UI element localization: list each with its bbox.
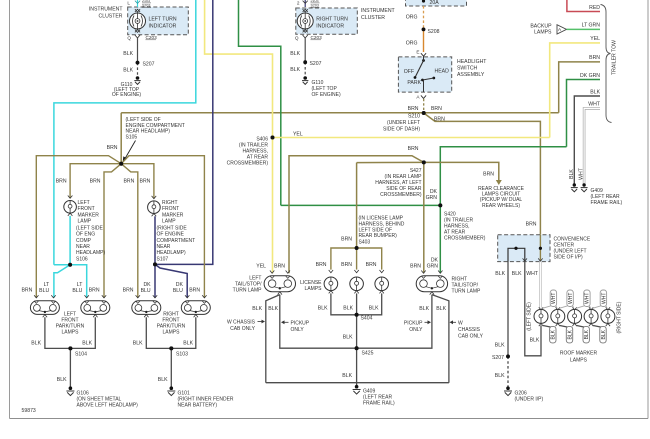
svg-text:ONLY: ONLY — [409, 327, 423, 333]
svg-text:(UNDER LEFT: (UNDER LEFT — [387, 120, 420, 126]
svg-text:BLK: BLK — [590, 89, 600, 95]
svg-text:ORG: ORG — [406, 15, 418, 21]
ground G206 (under I/P) — [504, 386, 543, 402]
svg-text:BLK: BLK — [342, 373, 352, 379]
splice S404 — [355, 313, 359, 317]
wire BLK stub lamp2 with label box — [543, 326, 557, 343]
svg-text:BRN: BRN — [410, 263, 421, 269]
label W CHASSIS CAB ONLY (right) — [450, 320, 484, 339]
wire BRN drop to S403 — [356, 163, 358, 248]
svg-text:RIGHT: RIGHT — [162, 200, 178, 206]
label left front park/turn lamps — [56, 312, 85, 336]
wire BRN S403 bus to license lamps — [331, 248, 357, 270]
svg-text:S105: S105 — [126, 134, 138, 140]
svg-text:WHT: WHT — [579, 167, 585, 180]
svg-text:LAMPS: LAMPS — [62, 330, 80, 336]
svg-text:BLK: BLK — [158, 377, 168, 383]
svg-text:BLK: BLK — [343, 306, 353, 312]
label right front park/turn lamps — [157, 312, 186, 336]
wire DK BLU S107 to third park lamp pin — [154, 264, 156, 297]
svg-text:TRAILER TOW: TRAILER TOW — [612, 40, 618, 75]
wire YEL from top to rear yellow drop — [205, 0, 273, 138]
svg-text:20A: 20A — [430, 0, 440, 6]
svg-text:CROSSMEMBER): CROSSMEMBER) — [227, 161, 269, 167]
wire BRN dashed from terminal A to S210 — [423, 99, 425, 113]
svg-text:BLK: BLK — [318, 306, 328, 312]
svg-text:BLK: BLK — [123, 68, 133, 74]
wire BLK left tail lamp pickup branch to S425 bus — [280, 295, 357, 349]
wire BRN main bus from S210 left to S105 drop — [121, 112, 424, 114]
wire DK GRN from trailer cross run down to S420 — [440, 147, 566, 206]
svg-text:OF ENGINE): OF ENGINE) — [312, 92, 342, 98]
svg-text:LAMP: LAMP — [162, 219, 176, 225]
svg-text:BLK: BLK — [495, 343, 505, 349]
trailer tow bracket — [601, 5, 612, 123]
svg-text:BLK: BLK — [252, 306, 262, 312]
license lamp 1 — [324, 270, 338, 293]
instrument cluster box (right turn indicator) — [296, 8, 396, 34]
svg-text:S207: S207 — [310, 61, 322, 67]
wire BLK stub lamp3 with label box — [577, 326, 590, 343]
splice S207 (left engine harness) — [136, 61, 140, 65]
svg-text:BLK: BLK — [369, 306, 379, 312]
pin connector top of left indicator (terminal L) — [127, 0, 151, 12]
svg-text:CAB ONLY: CAB ONLY — [458, 334, 484, 340]
svg-text:Q: Q — [295, 36, 299, 41]
svg-text:BLK: BLK — [343, 335, 353, 341]
svg-text:LAMPS: LAMPS — [305, 286, 323, 292]
junction dot overlay (all splice nodes repainted on top) — [68, 28, 542, 359]
wire DK BLU from top to S107 riser — [155, 0, 213, 264]
wire BRN fan S105 to right park lamp inner pin — [121, 164, 138, 298]
svg-text:NEAR: NEAR — [157, 244, 171, 250]
svg-text:REAR WHEELS): REAR WHEELS) — [482, 203, 520, 209]
left tail/stop/turn lamp — [233, 271, 296, 295]
svg-text:GRN: GRN — [426, 195, 438, 201]
svg-text:BLK: BLK — [290, 51, 300, 57]
svg-text:CLUSTER: CLUSTER — [99, 14, 123, 20]
svg-text:ORG: ORG — [406, 41, 418, 47]
page border frame bottom — [10, 418, 649, 420]
svg-text:GRN: GRN — [427, 264, 439, 270]
svg-text:S203: S203 — [311, 4, 319, 8]
ground G110 (right chain) — [302, 76, 341, 98]
svg-text:BRN: BRN — [316, 262, 327, 268]
svg-text:BLK: BLK — [183, 341, 193, 347]
splice S208 — [422, 28, 426, 32]
wire BRN through convenience center — [539, 235, 541, 261]
svg-text:BLK: BLK — [512, 271, 522, 277]
svg-text:BRN: BRN — [431, 106, 442, 112]
page border frame right — [647, 0, 649, 419]
wire BRN fan S105 to left front marker lamp — [70, 164, 121, 198]
wire BLK from C203 to S207 (right) — [304, 38, 306, 62]
svg-text:ROOF MARKER: ROOF MARKER — [560, 351, 598, 357]
roof marker lamp 1 — [534, 307, 548, 326]
wire BLK S404 to S425 — [356, 315, 358, 348]
wire BLK dashed S207 to G206 — [507, 356, 509, 387]
svg-text:COMPARTMENT: COMPARTMENT — [157, 238, 196, 244]
wire BLK right tail lamp pickup branch to S425 bus — [357, 295, 432, 349]
svg-text:BRN: BRN — [408, 106, 419, 112]
svg-text:BRN: BRN — [123, 288, 134, 294]
splice S210 (under left side of dash) — [422, 111, 426, 115]
svg-text:BRN: BRN — [21, 288, 32, 294]
svg-text:LEFT: LEFT — [78, 200, 90, 206]
wire DK GRN from trailer tow down to green cross run — [567, 80, 601, 147]
roof marker lamp 2 — [551, 307, 565, 326]
svg-text:OF ENG: OF ENG — [76, 232, 95, 238]
svg-text:MARKER: MARKER — [162, 212, 184, 218]
svg-text:WHT: WHT — [551, 293, 557, 304]
svg-text:BLK: BLK — [133, 341, 143, 347]
wire BLK from C203 to S207 (left) — [137, 38, 139, 63]
svg-text:LAMP: LAMP — [78, 219, 92, 225]
wire BRN riser to trailer tow BRN row — [559, 62, 600, 113]
svg-text:WHT: WHT — [526, 271, 539, 277]
right tail/stop/turn lamp — [416, 271, 481, 295]
svg-text:BLK: BLK — [57, 377, 67, 383]
svg-text:(RIGHT SIDE: (RIGHT SIDE — [157, 225, 188, 231]
svg-text:SWITCH: SWITCH — [457, 66, 478, 72]
pin connector convenience center output 3 — [538, 258, 542, 261]
svg-text:W CHASSIS: W CHASSIS — [227, 320, 256, 326]
wire WHT jumper lamp2 to lamp3 with label box — [559, 290, 574, 308]
svg-text:ABOVE LEFT HEADLAMP): ABOVE LEFT HEADLAMP) — [77, 403, 139, 409]
wire BRN drop from main bus to S105 — [120, 113, 122, 164]
svg-text:S210: S210 — [408, 114, 420, 120]
splice S105 — [119, 162, 123, 166]
left front park/turn lamp 1 — [30, 295, 59, 317]
splice S207 (rear) — [506, 355, 510, 359]
svg-text:BRN: BRN — [483, 172, 494, 178]
svg-text:INDICATOR: INDICATOR — [316, 24, 344, 30]
svg-text:C203: C203 — [311, 35, 323, 40]
svg-text:2: 2 — [297, 1, 300, 6]
svg-text:BLK: BLK — [419, 306, 429, 312]
pin connector top of right indicator (terminal 2) — [297, 0, 320, 12]
headlight switch assembly box — [398, 57, 487, 92]
svg-text:FRONT: FRONT — [162, 206, 179, 212]
label PICKUP ONLY (left) — [281, 320, 310, 333]
svg-text:S425: S425 — [362, 351, 374, 357]
svg-text:YEL: YEL — [256, 263, 266, 269]
wire BLK S425 down to G409 — [356, 348, 358, 385]
splice S107 — [153, 263, 157, 267]
svg-text:BLU: BLU — [72, 288, 82, 294]
svg-text:CAB ONLY: CAB ONLY — [230, 326, 256, 332]
svg-text:BLK: BLK — [436, 306, 446, 312]
svg-text:(LEFT SIDE: (LEFT SIDE — [76, 225, 104, 231]
svg-text:S107: S107 — [157, 256, 169, 262]
splice S106 — [68, 263, 72, 267]
wire WHT jumper lamp3 to lamp4 with label box — [576, 290, 591, 308]
wire WHT convenience center to first roof marker lamp — [539, 262, 541, 308]
svg-text:BLK: BLK — [530, 338, 540, 344]
wire WHT jumper lamp1 to lamp2 with label box — [543, 290, 558, 308]
left front park/turn lamp 2 — [81, 295, 110, 317]
license lamp 2 — [350, 270, 364, 293]
pin connector bottom of right indicator (terminal Q, connector C203) — [295, 30, 322, 41]
svg-text:CROSSMEMBER): CROSSMEMBER) — [380, 192, 422, 198]
svg-text:OF ENGINE): OF ENGINE) — [112, 92, 142, 98]
svg-text:BLU: BLU — [173, 288, 183, 294]
splice S207 (right chain) — [303, 60, 307, 64]
labels wire colors above park turn lamps — [21, 282, 200, 294]
svg-text:BLK: BLK — [31, 341, 41, 347]
svg-text:WHT: WHT — [568, 293, 574, 304]
svg-text:BRN: BRN — [90, 179, 101, 185]
svg-text:BRN: BRN — [526, 222, 537, 228]
page border frame left — [9, 0, 11, 419]
svg-text:BRN: BRN — [89, 288, 100, 294]
label PICKUP ONLY (right) — [404, 320, 431, 333]
wire WHT from trailer tow down to G409 — [584, 108, 600, 183]
wire BLK dashed from S207 to G110 (right) — [304, 62, 306, 76]
svg-text:E: E — [416, 50, 419, 55]
wire LT GRN from backup lamps arrow to trailer tow — [567, 28, 601, 30]
ground G409 (left rear frame rail, trailer tow pair) — [571, 183, 623, 206]
fuse block box (20A fuse, top edge) — [406, 0, 467, 6]
wire BRN from S427 left to license lamp drop — [357, 161, 424, 163]
svg-text:S203: S203 — [142, 4, 150, 8]
svg-text:BLK: BLK — [495, 373, 505, 379]
arrow to rear clearance lamps circuit — [496, 180, 502, 185]
svg-text:S404: S404 — [361, 316, 373, 322]
svg-text:PICKUP: PICKUP — [404, 321, 423, 327]
svg-text:S106: S106 — [76, 256, 88, 262]
svg-text:PICKUP: PICKUP — [291, 321, 310, 327]
svg-text:INSTRUMENT: INSTRUMENT — [89, 7, 124, 13]
right front park/turn lamp 4 — [181, 295, 210, 317]
roof marker lamp 3 — [568, 307, 582, 326]
svg-text:S207: S207 — [143, 62, 155, 68]
wire BLK stub lamp2-2 with label box — [560, 326, 574, 343]
wire DK GRN from S420 down to right tail lamp — [439, 205, 441, 273]
wire LT BLU S106 to second park lamp pin — [70, 265, 87, 298]
svg-text:OF ENGINE: OF ENGINE — [157, 232, 185, 238]
label S427 — [375, 168, 422, 198]
pin connector convenience center output 2 — [523, 258, 527, 261]
svg-text:L: L — [127, 1, 130, 6]
wire BRN from S427 down to right tail lamp — [423, 162, 425, 273]
roof marker lamp 4 — [584, 307, 598, 326]
svg-text:BRN: BRN — [140, 179, 151, 185]
svg-text:BRN: BRN — [107, 145, 118, 151]
svg-text:BRN: BRN — [341, 237, 352, 243]
wire BRN fan S105 to left park lamp inner pin — [104, 164, 121, 298]
wire BLK convenience center to S207 splice — [507, 262, 509, 357]
svg-text:W: W — [458, 321, 463, 327]
wire BLK right tail lamp chassis-cab branch — [432, 295, 449, 383]
wire BRN from S427 right to rear clearance arrow — [424, 162, 499, 180]
splice S420 — [438, 204, 442, 208]
svg-text:(LEFT SIDE): (LEFT SIDE) — [527, 302, 533, 331]
svg-text:BRN: BRN — [434, 116, 445, 122]
svg-text:BLK: BLK — [268, 306, 278, 312]
svg-text:OFF: OFF — [404, 69, 414, 75]
svg-text:FRONT: FRONT — [78, 206, 95, 212]
svg-text:BLU: BLU — [39, 288, 49, 294]
svg-text:59873: 59873 — [22, 408, 36, 414]
ground G106 — [66, 386, 138, 408]
svg-text:RIGHT TURN: RIGHT TURN — [316, 17, 348, 23]
svg-text:WHT: WHT — [588, 102, 601, 108]
svg-text:S103: S103 — [176, 352, 188, 358]
license lamp 3 — [375, 270, 389, 293]
svg-text:WHT: WHT — [601, 293, 607, 304]
svg-text:BLK: BLK — [290, 67, 300, 73]
svg-text:INSTRUMENT: INSTRUMENT — [361, 8, 396, 14]
svg-text:HEADLAMP): HEADLAMP) — [76, 250, 106, 256]
svg-text:LAMPS: LAMPS — [534, 30, 552, 36]
wire DK BLU from right marker lamp to S107 — [154, 216, 156, 264]
svg-text:NEAR BATTERY): NEAR BATTERY) — [178, 403, 218, 409]
svg-text:YEL: YEL — [590, 36, 600, 42]
svg-text:LAMPS: LAMPS — [570, 358, 588, 364]
wire BLK convenience center return to roof marker lamps — [525, 262, 541, 356]
svg-text:ONLY: ONLY — [291, 327, 305, 333]
svg-text:LEFT TURN: LEFT TURN — [149, 17, 177, 23]
wire YEL from S406 down to left tail lamp — [272, 138, 274, 274]
svg-text:SIDE OF DASH): SIDE OF DASH) — [383, 127, 420, 133]
pin connector bottom of left indicator (terminal Q, connector C203) — [127, 30, 157, 41]
svg-text:RED: RED — [589, 5, 600, 11]
svg-text:LT GRN: LT GRN — [582, 23, 601, 29]
wire LT BLU from top to S106 riser — [54, 0, 196, 265]
splice S403 — [355, 246, 359, 250]
left turn indicator bulb — [130, 13, 177, 30]
wire BRN branch from S210 to convenience center drop — [424, 113, 541, 235]
svg-text:S208: S208 — [428, 29, 440, 35]
label W CHASSIS CAB ONLY (left) — [227, 320, 265, 333]
wire BLK S103 to G101 — [170, 348, 172, 387]
wire BLK stub lamp4 with label box — [593, 326, 607, 343]
label S420 — [444, 212, 486, 242]
wire DK GRN from top stepping right — [239, 0, 281, 205]
svg-text:BRN: BRN — [408, 146, 419, 152]
label S406 — [227, 137, 269, 167]
ground G110 (left) — [112, 76, 142, 98]
right turn indicator bulb — [297, 13, 348, 30]
svg-text:TURN LAMP: TURN LAMP — [452, 289, 482, 295]
wire BLK license lamps to S404 — [331, 293, 382, 314]
wire YEL bus from S406 to trailer riser — [273, 137, 550, 139]
svg-text:COMP: COMP — [76, 238, 92, 244]
convenience center box — [498, 235, 591, 262]
svg-text:BLK: BLK — [82, 341, 92, 347]
right front marker lamp — [148, 196, 196, 263]
wire LT BLU S106 to left park lamp pin — [54, 265, 70, 298]
ground G101 — [167, 386, 234, 408]
splice S104 — [69, 347, 73, 351]
svg-text:C203: C203 — [146, 35, 158, 40]
svg-text:WHT: WHT — [585, 293, 591, 304]
wire BRN fan S105 to right park lamp outer pin — [121, 156, 204, 298]
wire YEL from trailer tow down to yellow bus — [550, 43, 600, 138]
wire BRN fan S105 to left park lamp outer pin — [36, 156, 121, 298]
svg-text:BRN: BRN — [56, 179, 67, 185]
svg-text:FRAME RAIL): FRAME RAIL) — [591, 200, 623, 206]
svg-text:BRN: BRN — [589, 55, 600, 61]
wire DK BLU S107 to fourth park lamp pin — [155, 264, 187, 297]
svg-text:LAMPS: LAMPS — [163, 330, 181, 336]
svg-text:S207: S207 — [492, 355, 504, 361]
svg-text:ASSEMBLY: ASSEMBLY — [457, 72, 485, 78]
svg-text:PARK: PARK — [407, 80, 421, 86]
svg-text:TURN LAMP: TURN LAMP — [233, 288, 263, 294]
svg-text:BLK: BLK — [551, 329, 557, 339]
wire BRN rear bus to left tail lamp — [289, 156, 424, 274]
svg-text:BLK: BLK — [601, 329, 607, 339]
svg-text:BLK: BLK — [569, 169, 575, 179]
headlight switch contacts and lever — [404, 56, 449, 92]
wire ORG dashed from fuse to S208 — [423, 6, 425, 29]
node on BRN inside convenience center — [539, 247, 542, 250]
wire BLK from trailer tow down to G409 — [574, 96, 600, 184]
svg-text:BRN: BRN — [123, 179, 134, 185]
ground G409 (left rear frame rail) — [353, 385, 395, 407]
wire BRN from S210 right to trailer tow riser — [424, 112, 559, 114]
label S105 with leader arrow — [123, 117, 185, 163]
svg-text:HEAD: HEAD — [435, 69, 450, 75]
svg-text:NEAR: NEAR — [76, 244, 90, 250]
wire RED to trailer tow — [567, 0, 600, 12]
svg-text:BLK: BLK — [584, 329, 590, 339]
svg-text:(RIGHT SIDE): (RIGHT SIDE) — [617, 301, 623, 333]
svg-text:DK GRN: DK GRN — [580, 73, 600, 79]
svg-text:BLU: BLU — [141, 288, 151, 294]
svg-text:CHASSIS: CHASSIS — [458, 327, 481, 333]
wire WHT jumper lamp4 to lamp5 with label box — [593, 290, 608, 308]
svg-text:CLUSTER: CLUSTER — [361, 15, 385, 21]
right front park/turn lamp 3 — [132, 295, 161, 317]
svg-text:BRN: BRN — [274, 263, 285, 269]
svg-text:REAR BUMPER): REAR BUMPER) — [359, 233, 398, 239]
wire BLK S104 to G106 — [69, 348, 71, 387]
svg-text:MARKER: MARKER — [78, 212, 100, 218]
splice S427 — [422, 161, 426, 165]
svg-text:YEL: YEL — [293, 132, 303, 138]
left front marker lamp — [64, 196, 106, 263]
svg-text:HEADLIGHT: HEADLIGHT — [457, 59, 487, 65]
backup lamps arrow connector A — [530, 24, 566, 36]
svg-text:BLK: BLK — [123, 51, 133, 57]
svg-text:BRN: BRN — [366, 262, 377, 268]
wire ORG from S208 to headlight switch terminal E — [423, 29, 425, 52]
svg-text:BLK: BLK — [567, 329, 573, 339]
svg-text:(UNDER I/P): (UNDER I/P) — [515, 397, 544, 403]
splice S425 — [355, 346, 359, 350]
wire BLK dashed from S207 to G110 (left) — [137, 63, 139, 77]
wire LT BLU S106 feed from cluster riser — [54, 264, 70, 266]
wire LT BLU from left marker lamp to S106 — [69, 216, 71, 265]
instrument cluster box (left turn indicator) — [89, 7, 189, 35]
svg-text:FRAME RAIL): FRAME RAIL) — [363, 401, 395, 407]
svg-text:HEADLAMP): HEADLAMP) — [157, 250, 187, 256]
svg-text:INDICATOR: INDICATOR — [149, 24, 177, 30]
splice S103 — [169, 347, 173, 351]
roof marker lamp 5 — [601, 307, 615, 326]
wire BLK bottom chassis bus to G409 — [266, 382, 449, 384]
wire BRN fan S105 to right front marker lamp — [121, 164, 154, 199]
svg-text:S403: S403 — [359, 240, 371, 246]
wire link inside convenience center — [508, 248, 525, 261]
wire BLK left park lamps to S104 — [45, 317, 95, 348]
svg-text:SIDE OF I/P): SIDE OF I/P) — [554, 255, 584, 261]
wire DK GRN cross run to S420 — [281, 204, 441, 206]
label S403 — [359, 216, 405, 246]
